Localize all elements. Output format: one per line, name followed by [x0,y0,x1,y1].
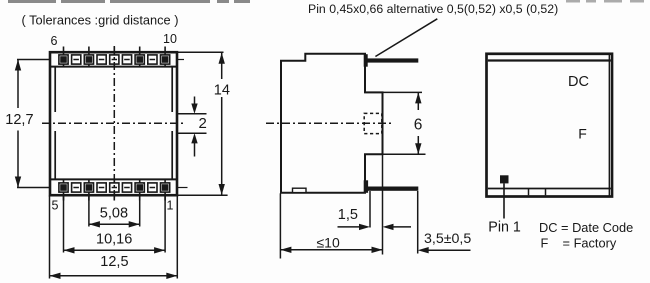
dimension 10,16 [64,249,164,251]
dimension 2 (right, grid distance) [177,97,207,157]
dimension 12,5 [50,275,177,277]
vertical centerline (dash-dot) [113,46,115,199]
dimension 5,08 [90,223,140,225]
dimension 3,5±0,5 [429,249,471,251]
clipped header text line (top-left, cut off) [8,0,250,3]
extension lines of middle view [280,154,417,258]
dimension ≤10 [281,249,382,251]
svg-text:2: 2 [199,115,207,132]
bottom inner line [488,188,611,190]
pin fills bottom row (pins 5,4,2,1) [60,184,168,191]
svg-text:12,5: 12,5 [100,254,128,270]
bottom notch [293,188,307,192]
pin ticks below bottom strip [64,180,166,201]
left wall inner line [54,67,56,112]
svg-text:6: 6 [414,117,423,134]
svg-text:Pin 0,45x0,66 alternative 0,5(: Pin 0,45x0,66 alternative 0,5(0,52) x0,5… [308,2,558,16]
right wall inner line [171,67,173,112]
pin row centerline right ticks [177,59,184,61]
dashes in open bottom cells [73,187,155,189]
dimension 1,5 [338,226,412,228]
pin 1 leader [503,183,505,218]
svg-text:DC: DC [568,74,589,90]
pin 1 mark [500,175,509,183]
top pin strip bottom edge [50,66,177,68]
centerline (dash-dot) [266,122,394,124]
svg-text:14: 14 [214,83,230,99]
svg-text:( Tolerances :grid distance ): ( Tolerances :grid distance ) [22,13,179,28]
svg-text:1,5: 1,5 [338,207,358,223]
leader line to top pin bar [375,19,437,57]
svg-text:3,5±0,5: 3,5±0,5 [424,231,471,247]
svg-text:5,08: 5,08 [100,206,128,222]
svg-text:F: F [578,126,587,142]
svg-text:DC = Date Code: DC = Date Code [539,220,633,235]
svg-text:5: 5 [52,199,59,213]
horizontal centerline (dash-dot) [42,122,184,124]
body outline [281,54,383,193]
pin fills top row (pins 6,7,9,10) [60,56,168,63]
pin root step top [364,54,368,66]
extension lines below (pins + edges) [50,196,178,279]
dashes in open top cells [73,59,155,61]
pin ticks above top strip [64,47,166,68]
bottom pin bar [366,187,418,191]
top pin bar [366,58,418,62]
svg-text:Pin 1: Pin 1 [488,220,521,236]
svg-text:F = Factory: F = Factory [541,236,617,251]
dimension 6 [365,92,426,154]
svg-text:10,16: 10,16 [96,232,132,248]
svg-text:≤10: ≤10 [317,235,340,251]
pin cells top row [59,55,170,64]
clipped text fragment (top-right, cut off) [566,0,644,3]
svg-text:1: 1 [167,199,174,213]
hidden pin (dashed) [364,113,382,133]
svg-text:12,7: 12,7 [5,112,33,128]
dimension 14 (right of left view) [178,52,228,195]
pin root step bottom [364,180,368,193]
svg-text:10: 10 [163,32,177,46]
dimension 12,7 (left) [17,60,50,188]
bottom pin strip top edge [50,178,177,180]
package outline [50,52,177,195]
top inner line [488,59,611,61]
pin cells bottom row [59,183,170,192]
bottom band ticks [528,189,530,196]
svg-text:6: 6 [51,34,58,48]
